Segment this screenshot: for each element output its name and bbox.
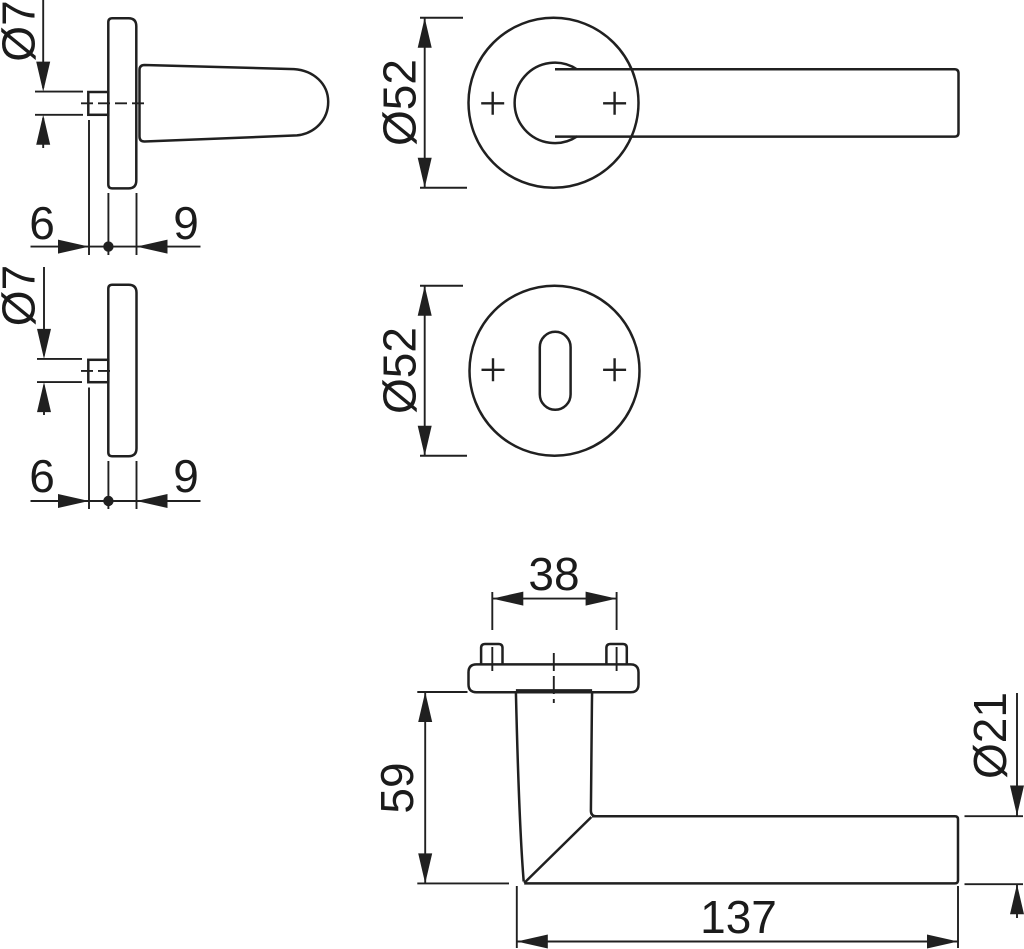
dim line O52 v3 xyxy=(424,18,426,188)
ext lines O21 v5 xyxy=(965,816,1024,884)
dim line 6-9 v1 xyxy=(31,246,201,248)
arrow O7 up v1 xyxy=(36,115,50,145)
screw cross left v4 xyxy=(482,358,505,381)
svg-text:Ø52: Ø52 xyxy=(374,327,426,414)
rose plate top view v5 xyxy=(469,664,639,692)
arrow 9 left v1 xyxy=(137,240,168,254)
screw cross right v3 xyxy=(603,92,626,115)
tick bottom O52 v4 xyxy=(420,455,467,457)
arrow O7 down v1 xyxy=(36,62,50,92)
svg-text:Ø21: Ø21 xyxy=(964,692,1016,779)
arrow O52 down v3 xyxy=(418,158,432,188)
arrow O52 up v4 xyxy=(418,286,432,316)
arrow O7 down v2 xyxy=(37,329,51,359)
spindle v1 xyxy=(88,92,108,115)
dim line 6-9 v2 xyxy=(31,500,201,502)
dim line 59 v5 xyxy=(424,692,426,883)
arrow 38 left v5 xyxy=(492,592,523,606)
svg-text:9: 9 xyxy=(173,197,199,249)
svg-text:Ø7: Ø7 xyxy=(0,265,45,326)
tick top O52 v4 xyxy=(420,285,463,287)
neck left edge v5 xyxy=(516,692,524,881)
ext lines 137 v5 xyxy=(517,886,958,948)
arrow 59 up v5 xyxy=(418,692,432,722)
keyhole v4 xyxy=(540,332,571,410)
svg-text:38: 38 xyxy=(528,548,579,600)
arrow 59 down v5 xyxy=(418,853,432,883)
dim line O52 v4 xyxy=(424,286,426,456)
neck top edge v5 xyxy=(516,689,592,692)
centerline v1 xyxy=(81,102,146,104)
stud right v5 xyxy=(606,644,626,664)
grip side v1 xyxy=(140,65,329,142)
arrow 9 left v2 xyxy=(137,494,168,508)
svg-text:Ø52: Ø52 xyxy=(374,59,426,146)
arrow 6 right v2 xyxy=(58,494,89,508)
svg-text:59: 59 xyxy=(371,762,423,813)
svg-text:6: 6 xyxy=(29,197,55,249)
svg-text:137: 137 xyxy=(700,891,777,943)
ext lines 59 v5 xyxy=(417,692,509,883)
arrow O21 down v5 xyxy=(1010,786,1024,816)
spindle v2 xyxy=(88,360,108,382)
centerline v2 xyxy=(81,370,114,372)
ext lines O7 v2 xyxy=(37,359,82,382)
ext lines O7 v1 xyxy=(35,92,83,115)
stud centerline dashes v5 xyxy=(492,647,616,671)
rose circle v3 xyxy=(469,18,639,188)
dot 6/9 v2 xyxy=(103,496,113,506)
dim line O7 v2 xyxy=(43,267,45,415)
rose side v1 xyxy=(108,18,136,188)
lever bar v3 xyxy=(555,69,959,136)
arrow 137 left v5 xyxy=(517,935,548,949)
neck collar arc v3 xyxy=(515,63,578,143)
arrow 38 right v5 xyxy=(586,592,617,606)
tick bottom O52 v3 xyxy=(420,187,467,189)
screw cross right v4 xyxy=(603,358,626,381)
ext lines 6-9 v1 xyxy=(89,120,137,255)
ext lines 38 v5 xyxy=(492,592,616,630)
arrow O52 down v4 xyxy=(418,426,432,456)
dot 6/9 v1 xyxy=(103,241,113,251)
miter line v5 xyxy=(524,817,591,883)
dim line O21 v5 xyxy=(1016,693,1018,918)
key rose circle v4 xyxy=(470,286,640,456)
arrow O21 up v5 xyxy=(1010,884,1024,914)
dim line 38 v5 xyxy=(492,598,616,600)
arrow 6 right v1 xyxy=(58,240,89,254)
ext lines 6-9 v2 xyxy=(89,388,137,510)
dim line 137 v5 xyxy=(517,941,958,943)
svg-text:9: 9 xyxy=(173,450,199,502)
svg-text:6: 6 xyxy=(29,450,55,502)
dim line O7 v1 xyxy=(42,0,44,148)
key rose side v2 xyxy=(108,285,136,456)
stud left v5 xyxy=(481,644,502,664)
arrow O7 up v2 xyxy=(37,382,51,412)
lever bar top view v5 xyxy=(524,816,958,883)
arrow 137 right v5 xyxy=(927,935,958,949)
svg-text:Ø7: Ø7 xyxy=(0,0,45,61)
neck right edge v5 xyxy=(591,692,596,816)
plate centerline v5 xyxy=(553,653,555,703)
arrow O52 up v3 xyxy=(418,18,432,48)
screw cross left v3 xyxy=(481,92,504,115)
tick top O52 v3 xyxy=(420,17,463,19)
